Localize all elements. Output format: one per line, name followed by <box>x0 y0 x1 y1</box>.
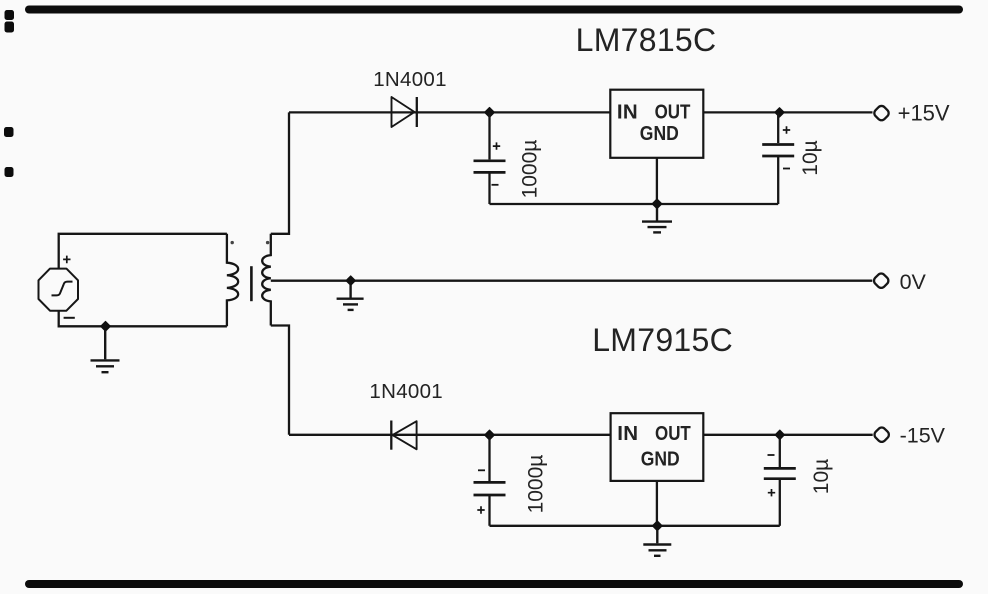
terminal 0V <box>872 272 890 290</box>
wire positive rail left section <box>289 111 610 113</box>
wire bottom of source to transformer primary <box>59 311 227 327</box>
node junction bottom ground rail <box>652 521 662 531</box>
node junction negative rail at C4 <box>775 430 785 440</box>
svg-text:+15V: +15V <box>898 101 950 126</box>
regulator U1 LM7815C box <box>610 90 703 158</box>
wire bottom circuit ground rail <box>490 525 780 527</box>
terminal -15V <box>873 426 891 444</box>
node junction negative rail at C3 <box>485 430 495 440</box>
svg-text:LM7915C: LM7915C <box>592 322 733 358</box>
wire top circuit ground rail <box>490 203 779 205</box>
svg-text:IN: IN <box>617 101 638 124</box>
transformer T1 primary phase dot <box>231 241 234 244</box>
transformer T1 secondary phase dot <box>266 241 269 244</box>
svg-text:GND: GND <box>641 447 680 470</box>
wire top of source to transformer primary <box>59 234 227 269</box>
node junction at source ground <box>101 321 111 331</box>
capacitor C2 10u <box>762 112 794 204</box>
wire regulator U1 output to +15V terminal <box>703 111 872 113</box>
ground on 0V rail <box>337 285 364 310</box>
svg-text:GND: GND <box>640 122 679 145</box>
svg-text:1000µ: 1000µ <box>525 455 548 514</box>
wire transformer secondary bottom lead to negative rail <box>271 326 289 435</box>
transformer T1 primary winding <box>227 234 238 326</box>
node junction 0V rail <box>346 276 356 286</box>
wire regulator U1 GND pin <box>656 158 658 204</box>
capacitor C1 1000u <box>474 112 506 204</box>
svg-text:IN: IN <box>617 422 638 445</box>
wire regulator U2 output to -15V terminal <box>703 434 872 436</box>
capacitor C4 10u <box>764 435 796 526</box>
svg-text:OUT: OUT <box>655 101 691 124</box>
svg-text:1N4001: 1N4001 <box>369 380 443 403</box>
svg-text:1000µ: 1000µ <box>519 140 542 199</box>
capacitor C3 1000u <box>474 435 506 526</box>
wire regulator U2 GND pin <box>656 481 658 526</box>
wire transformer secondary top lead to positive rail <box>271 112 289 233</box>
regulator U2 LM7915C box <box>611 413 704 481</box>
ground below regulator U2 <box>643 530 671 556</box>
svg-text:OUT: OUT <box>655 422 691 445</box>
svg-text:0V: 0V <box>900 270 927 294</box>
node junction positive rail at C1 <box>485 107 495 117</box>
ground below regulator U1 <box>642 208 672 232</box>
diode D2 1N4001 <box>391 421 416 450</box>
svg-text:-15V: -15V <box>900 424 946 448</box>
node junction positive rail at C2 <box>775 108 785 118</box>
svg-text:LM7815C: LM7815C <box>576 22 717 58</box>
AC source V1 <box>39 256 79 318</box>
ground below source <box>91 330 120 372</box>
svg-text:10µ: 10µ <box>799 140 822 175</box>
node junction ground rail <box>652 199 662 209</box>
svg-text:1N4001: 1N4001 <box>373 68 447 91</box>
transformer T1 secondary winding <box>262 234 271 326</box>
wire center tap 0V rail <box>271 280 873 282</box>
wire negative rail left section <box>289 434 611 436</box>
transformer T1 core <box>250 266 253 301</box>
svg-text:10µ: 10µ <box>810 459 833 494</box>
terminal +15V <box>873 104 891 122</box>
diode D1 1N4001 <box>392 97 417 127</box>
